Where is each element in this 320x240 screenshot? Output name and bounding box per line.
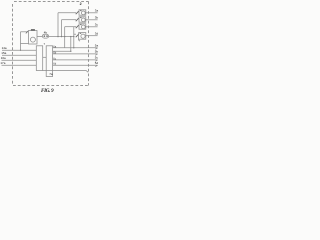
control block left (rect U1) — [36, 46, 42, 71]
wire relay output — [37, 36, 43, 38]
dashed enclosure right border — [88, 2, 90, 86]
svg-text:7a: 7a — [49, 72, 53, 76]
input line 2 — [2, 54, 36, 56]
block pin labels — [53, 44, 56, 65]
wire row1 horizontal — [58, 12, 76, 14]
svg-text:5a: 5a — [95, 44, 99, 48]
block output line 4 — [53, 59, 98, 61]
block output line 2 (short) — [53, 50, 71, 52]
svg-text:4b: 4b — [44, 30, 48, 34]
wire row4 horizontal — [74, 33, 76, 35]
wire riser v5 — [73, 27, 75, 48]
svg-text:2: 2 — [80, 2, 82, 6]
input line 3 — [2, 59, 37, 61]
wire riser v1 — [57, 13, 59, 37]
dashed enclosure bottom border — [13, 85, 89, 87]
svg-text:5d: 5d — [95, 61, 99, 65]
svg-text:17a: 17a — [0, 61, 5, 65]
block output line 3 — [53, 53, 98, 55]
wire riser v4 — [70, 37, 72, 52]
junction v4/line2 — [70, 51, 71, 52]
solenoid unit 1 — [76, 10, 98, 15]
dashed enclosure left border — [12, 4, 14, 86]
solenoid unit 4 — [76, 33, 98, 42]
control block right (rect U2) — [46, 46, 52, 77]
wire riser v3 — [64, 27, 66, 48]
relay K (left component) — [21, 29, 38, 50]
wire row3 horizontal — [65, 26, 76, 28]
svg-text:16a: 16a — [1, 56, 6, 60]
block output line 1 — [53, 47, 98, 49]
input line 1 — [2, 49, 36, 51]
svg-text:7: 7 — [44, 42, 46, 46]
connector plug P (oval component) — [42, 34, 48, 38]
svg-text:3a: 3a — [95, 9, 99, 13]
solenoid unit 3 — [76, 24, 98, 29]
svg-text:15a: 15a — [1, 51, 6, 55]
junction dots on main line — [57, 36, 74, 37]
wire crossbar between blocks — [43, 56, 47, 58]
svg-text:5c: 5c — [95, 56, 99, 60]
svg-text:5b: 5b — [95, 50, 99, 54]
wire riser v2 — [61, 20, 63, 37]
svg-text:FIG. 9: FIG. 9 — [41, 89, 54, 94]
solenoid unit 2 — [76, 17, 98, 22]
wire row2 horizontal — [62, 19, 77, 21]
svg-text:3b: 3b — [95, 16, 99, 20]
svg-text:3c: 3c — [95, 23, 99, 27]
input line 4 — [2, 64, 37, 66]
svg-text:3d: 3d — [95, 32, 99, 36]
svg-text:14a: 14a — [2, 46, 7, 50]
block output line 5 — [53, 64, 98, 66]
dashed enclosure top border — [14, 1, 89, 3]
junction v5/line1 — [73, 47, 74, 48]
wire main line — [49, 36, 74, 38]
junction dot relay/input line — [20, 50, 21, 51]
leader line to enclosure border — [43, 71, 88, 73]
